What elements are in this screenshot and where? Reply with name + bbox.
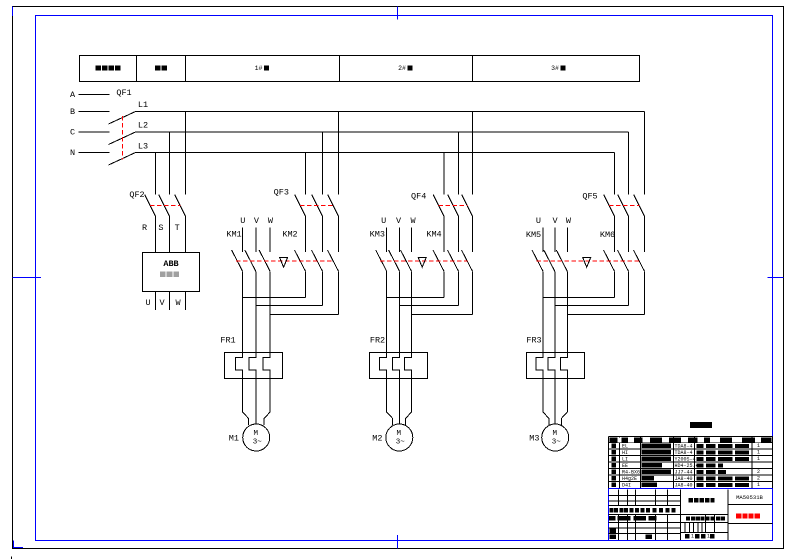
wire KM2 pole 1 top [305, 216, 307, 252]
breaker QF1 pole 1 blade [109, 112, 136, 125]
black tick below bottom-left corner [11, 557, 13, 559]
contactor KM5 pole 2 blade [544, 250, 555, 271]
blue corner mark bottom-left [14, 541, 24, 548]
svg-text:QF5: QF5 [582, 192, 597, 202]
breaker QF3 pole 2 blade [312, 195, 323, 217]
parts list row 3 seq blob [612, 470, 617, 475]
wire KM3 pole 3 to FR2 [411, 271, 413, 352]
breaker QF1 linkage red dashed line [122, 116, 124, 160]
wire KM1 pole 3 to FR1 [269, 271, 271, 352]
wire join KM2 pole 2 to KM1 [256, 305, 323, 307]
wire KM3 pole 2 top [399, 228, 401, 253]
svg-text:M3: M3 [529, 434, 539, 444]
contactor KM4 pole 3 blade [462, 250, 473, 271]
contactor KM5 pole 1 blade [532, 250, 543, 271]
wire KM4 pole 3 down [472, 271, 474, 314]
parts list row 6 seq blob [612, 450, 617, 455]
wire bus drop to QF4 pole 2 [458, 132, 460, 195]
breaker QF2 pole 3 blade [175, 195, 186, 217]
breaker QF2 pole 1 blade [145, 195, 156, 217]
wire FR3 phase 2 to motor [554, 379, 556, 425]
parts list column line 3 [673, 437, 675, 489]
breaker QF3 pole 1 blade [295, 195, 306, 217]
parts list table outline [609, 436, 773, 438]
wire KM5 pole 2 to FR3 [554, 271, 556, 352]
svg-text:1: 1 [757, 456, 760, 462]
svg-text:2: 2 [757, 476, 760, 482]
svg-text:LI: LI [622, 457, 628, 463]
thermal relay FR2 heater element 1 [380, 353, 387, 379]
contactor KM6 pole 3 blade [634, 250, 645, 271]
svg-text:H4g2E: H4g2E [622, 476, 637, 482]
title block main divider vertical [680, 490, 682, 541]
svg-text:KM6: KM6 [600, 230, 615, 240]
svg-text:U: U [536, 216, 541, 226]
wire QF2 pole 1 to converter input [155, 216, 157, 253]
wire KM5 pole 2 top [554, 228, 556, 253]
svg-text:MA50531B: MA50531B [736, 494, 763, 501]
wire bus drop to QF3 pole 2 [322, 132, 324, 195]
wire KM1 pole 2 to FR1 [255, 271, 257, 352]
wire KM6 pole 1 top [614, 216, 616, 252]
wire FR1 phase 1 to motor [243, 379, 249, 426]
wire join KM4 pole 3 to KM3 [412, 314, 473, 316]
title block drawing name blobs [689, 498, 693, 502]
wire converter output U [155, 292, 157, 311]
svg-text:V: V [396, 216, 402, 226]
title block center row line 3 [681, 532, 729, 534]
wire join KM6 pole 3 to KM5 [567, 314, 644, 316]
svg-text:W: W [268, 216, 274, 226]
title block row label blob approve [646, 535, 653, 539]
svg-text:C: C [70, 128, 75, 138]
thermal relay FR1 heater element 2 [249, 353, 256, 379]
wire KM3 pole 3 top [411, 228, 413, 253]
parts list row line 6 [609, 474, 773, 476]
parts list row 2 seq blob [612, 476, 617, 481]
blue centering tick bottom edge [397, 535, 399, 549]
wire KM5 pole 3 top [566, 228, 568, 253]
title block stamp row verticals [705, 515, 707, 533]
breaker QF4 pole 2 blade [448, 195, 459, 217]
wire FR1 phase 2 to motor [255, 379, 257, 425]
breaker QF5 pole 3 blade [634, 195, 645, 217]
thermal relay FR2 heater element 2 [393, 353, 400, 379]
svg-text:V: V [159, 298, 165, 308]
svg-text:EL: EL [622, 444, 628, 450]
svg-text:1: 1 [707, 534, 710, 540]
parts list row line 1 [609, 442, 773, 444]
parts list row 5 name bar [642, 457, 672, 462]
wire phase A input [79, 94, 110, 96]
contactor KM3 pole 3 blade [401, 250, 412, 271]
svg-text:Y200S-4: Y200S-4 [675, 457, 696, 463]
svg-text:KM4: KM4 [426, 230, 441, 240]
parts list row 1 spec bar [697, 483, 750, 487]
blue centering tick top edge [397, 7, 399, 20]
breaker QF5 linkage red dashed line [609, 205, 640, 207]
svg-text:QF2: QF2 [129, 190, 144, 200]
svg-text:FR3: FR3 [526, 335, 541, 345]
svg-text:U: U [240, 216, 245, 226]
wire bus drop to QF3 pole 1 [305, 153, 307, 195]
contactor KM5 pole 3 blade [556, 250, 567, 271]
wire KM2 pole 2 down [322, 271, 324, 305]
title block sheet count text [685, 534, 689, 538]
parts list row 2 name bar [642, 476, 655, 481]
title block scale label blobs [716, 516, 720, 520]
svg-text:HD4-25.4: HD4-25.4 [675, 463, 699, 469]
parts list column line 1 [619, 437, 621, 489]
wire KM4 pole 1 down [443, 271, 445, 297]
header table column line 3 [339, 56, 341, 82]
breaker QF4 pole 3 blade [462, 195, 473, 217]
wire KM6 pole 3 down [644, 271, 646, 314]
title block outer blue top line [609, 488, 773, 490]
svg-text:W: W [566, 216, 572, 226]
wire KM6 pole 3 top [644, 216, 646, 252]
mechanical interlock triangle branch 1 [280, 258, 288, 268]
wire KM6 pole 1 down [614, 271, 616, 297]
parts list row 5 seq blob [612, 457, 617, 462]
header table column line 2 [185, 56, 187, 82]
wire KM1 pole 1 top [242, 228, 244, 253]
svg-text:JA8-40: JA8-40 [675, 476, 693, 482]
parts list row 1 name bar [642, 483, 658, 488]
title block center cell bottom line [681, 514, 729, 516]
contactor KM2 pole 2 blade [312, 250, 323, 271]
contactor KM4 pole 2 blade [448, 250, 459, 271]
title block right cell line 1 [728, 504, 773, 506]
motor M1 circle [243, 424, 270, 451]
svg-text:L1: L1 [138, 100, 148, 110]
header cell label frequency converter [155, 65, 160, 70]
wire converter output W [185, 292, 187, 311]
svg-text:3~: 3~ [253, 438, 263, 446]
svg-text:B: B [70, 107, 75, 117]
thermal relay FR3 box [527, 353, 585, 379]
svg-text:U: U [381, 216, 386, 226]
svg-text:U: U [145, 298, 150, 308]
contactor linkage red dashed line branch 2 [380, 260, 467, 262]
frequency converter U1 box [143, 253, 200, 292]
contactor linkage red dashed line branch 1 [236, 260, 333, 262]
svg-text:N: N [70, 148, 75, 158]
wire QF2 pole 2 to converter input [169, 216, 171, 253]
wire bus drop to QF5 pole 1 [614, 153, 616, 195]
frequency converter U1 chinese name [160, 271, 166, 277]
parts list row line 2 [609, 448, 773, 450]
parts list row 5 spec bar [697, 457, 750, 461]
breaker QF5 pole 2 blade [618, 195, 629, 217]
contactor KM1 pole 3 blade [259, 250, 270, 271]
contactor linkage red dashed line branch 3 [537, 260, 640, 262]
contactor KM1 pole 2 blade [245, 250, 256, 271]
header table column line 1 [136, 56, 138, 82]
breaker QF4 pole 1 blade [433, 195, 444, 217]
thermal relay FR1 box [225, 353, 283, 379]
breaker QF1 pole 3 blade [109, 153, 136, 166]
svg-text:R4-BX6: R4-BX6 [622, 470, 640, 476]
svg-text:HI: HI [622, 450, 628, 456]
svg-text:FR2: FR2 [370, 335, 385, 345]
thermal relay FR3 heater element 3 [560, 353, 567, 379]
bus L3 wire [136, 152, 615, 154]
wire bus drop to QF2 pole 3 [185, 112, 187, 195]
blue tick top-left corner [12, 7, 14, 17]
breaker QF3 pole 3 blade [328, 195, 339, 217]
svg-text:KM3: KM3 [370, 230, 385, 240]
wire KM2 pole 2 top [322, 216, 324, 252]
wire join KM2 pole 3 to KM1 [270, 314, 338, 316]
wire KM3 pole 2 to FR2 [399, 271, 401, 352]
breaker QF5 pole 1 blade [604, 195, 615, 217]
contactor KM6 pole 2 blade [618, 250, 629, 271]
parts list row 7 name bar [642, 444, 672, 449]
wire KM2 pole 3 down [338, 271, 340, 314]
svg-text:FR1: FR1 [220, 335, 235, 345]
wire FR3 phase 3 to motor [561, 379, 567, 426]
thermal relay FR3 heater element 2 [548, 353, 555, 379]
wire join KM6 pole 2 to KM5 [555, 305, 629, 307]
svg-text:1: 1 [691, 534, 694, 540]
breaker QF2 linkage red dashed line [150, 205, 181, 207]
svg-text:KM1: KM1 [226, 230, 241, 240]
parts list row line 4 [609, 461, 773, 463]
parts list row 1 seq blob [612, 483, 617, 488]
parts list row 2 spec bar [697, 476, 750, 480]
svg-text:A: A [70, 90, 76, 100]
svg-text:TDA8-4: TDA8-4 [675, 450, 693, 456]
wire KM6 pole 2 top [628, 216, 630, 252]
parts list header black band [610, 438, 772, 442]
contactor KM3 pole 1 blade [376, 250, 387, 271]
wire KM3 pole 1 to FR2 [386, 271, 388, 352]
parts list row line 7 [609, 481, 773, 483]
parts list column line 4 [694, 437, 696, 489]
wire bus drop to QF3 pole 3 [338, 112, 340, 195]
svg-text:S: S [158, 223, 163, 233]
title block signature small cells [684, 523, 686, 533]
svg-text:3#: 3# [551, 65, 559, 72]
title block design row blobs [609, 516, 616, 520]
title block row label blob tracing [610, 529, 617, 533]
svg-text:TDA8-4: TDA8-4 [675, 444, 693, 450]
parts list row 6 spec bar [697, 450, 750, 454]
wire KM3 pole 1 top [386, 228, 388, 253]
svg-text:M: M [397, 430, 402, 438]
svg-text:JJ7-44: JJ7-44 [675, 470, 693, 476]
contactor KM2 pole 3 blade [328, 250, 339, 271]
wire bus drop to QF5 pole 3 [644, 112, 646, 195]
svg-text:1: 1 [757, 443, 760, 449]
title block company name red blobs [736, 513, 741, 518]
wire join KM4 pole 1 to KM3 [387, 297, 444, 299]
svg-text:EE: EE [622, 463, 628, 469]
svg-text:3~: 3~ [396, 438, 406, 446]
svg-text:KM5: KM5 [526, 230, 541, 240]
wire KM5 pole 3 to FR3 [566, 271, 568, 352]
wire KM4 pole 2 down [458, 271, 460, 305]
svg-text:1: 1 [757, 482, 760, 488]
wire phase N input [79, 152, 110, 154]
svg-text:W: W [410, 216, 416, 226]
breaker QF1 pole 2 blade [109, 132, 136, 145]
thermal relay FR2 heater element 3 [405, 353, 412, 379]
title block center row line 2 [681, 522, 729, 524]
svg-text:L3: L3 [138, 141, 148, 151]
parts list column line 2 [640, 437, 642, 489]
svg-text:R: R [142, 223, 147, 233]
wire FR2 phase 2 to motor [399, 379, 401, 425]
svg-text:M: M [253, 430, 258, 438]
wire join KM2 pole 1 to KM1 [243, 297, 306, 299]
contactor KM4 pole 1 blade [433, 250, 444, 271]
mechanical interlock triangle branch 2 [418, 258, 426, 268]
svg-text:2#: 2# [398, 65, 406, 72]
svg-text:1: 1 [757, 450, 760, 456]
parts list row 3 name bar [642, 470, 672, 475]
wire FR2 phase 3 to motor [406, 379, 412, 426]
wire KM1 pole 2 top [255, 228, 257, 253]
header table column line 4 [472, 56, 474, 82]
svg-text:M2: M2 [372, 434, 382, 444]
parts list row 7 seq blob [612, 444, 617, 449]
bus L2 wire [136, 131, 629, 133]
wire phase C input [79, 131, 110, 133]
title block row label blob process [610, 535, 617, 539]
motor M2 circle [386, 424, 413, 451]
motor M3 circle [542, 424, 569, 451]
wire FR3 phase 1 to motor [543, 379, 549, 426]
wire bus drop to QF4 pole 3 [472, 112, 474, 195]
title block revision row text blobs [610, 508, 614, 513]
parts list row 7 spec bar [697, 444, 750, 448]
svg-text:JA8-40: JA8-40 [675, 483, 693, 489]
wire join KM6 pole 1 to KM5 [543, 297, 615, 299]
parts list row 4 seq blob [612, 463, 617, 468]
wire FR2 phase 1 to motor [387, 379, 393, 426]
parts list row 4 spec bar [697, 463, 724, 467]
svg-text:M: M [552, 430, 557, 438]
svg-text:L2: L2 [138, 121, 148, 131]
section header table [80, 56, 640, 82]
svg-text:QF1: QF1 [116, 88, 131, 98]
title block left grid horizontals [609, 495, 681, 497]
parts list row 3 spec bar [697, 470, 727, 474]
thermal relay FR3 heater element 1 [536, 353, 543, 379]
svg-text:QF3: QF3 [274, 188, 289, 198]
wire KM1 pole 1 to FR1 [242, 271, 244, 352]
wire bus drop to QF2 pole 1 [155, 153, 157, 195]
bus L1 wire [136, 111, 645, 113]
svg-text:KM2: KM2 [282, 229, 297, 239]
wire phase B input [79, 111, 110, 113]
parts list row line 3 [609, 455, 773, 457]
title block outer blue left line [608, 489, 610, 541]
parts list row 4 name bar [642, 463, 663, 468]
contactor KM1 pole 1 blade [232, 250, 243, 271]
wire bus drop to QF5 pole 2 [628, 132, 630, 195]
breaker QF3 linkage red dashed line [300, 205, 334, 207]
breaker QF2 pole 2 blade [159, 195, 170, 217]
header cell label incoming supply [96, 65, 101, 70]
parts list header white gaps [618, 437, 622, 442]
contactor KM2 pole 1 blade [295, 250, 306, 271]
thermal relay FR2 box [370, 353, 428, 379]
wire join KM4 pole 2 to KM3 [400, 305, 459, 307]
svg-text:QF4: QF4 [411, 191, 426, 201]
parts list row line 5 [609, 468, 773, 470]
wire KM5 pole 1 top [542, 228, 544, 253]
wire KM2 pole 1 down [305, 271, 307, 297]
svg-text:V: V [552, 216, 558, 226]
wire converter output V [169, 292, 171, 311]
title block stage mark blobs [686, 516, 690, 520]
svg-text:ABB: ABB [163, 259, 178, 269]
svg-text:T: T [175, 223, 180, 233]
wire FR1 phase 3 to motor [264, 379, 270, 426]
svg-text:3~: 3~ [552, 438, 562, 446]
wire bus drop to QF2 pole 2 [169, 132, 171, 195]
wire bus drop to QF4 pole 1 [443, 153, 445, 195]
black bar above title block [690, 422, 712, 428]
parts list column line 5 [751, 437, 753, 489]
title block center-right divider vertical [727, 490, 729, 541]
wire KM6 pole 2 down [628, 271, 630, 305]
thermal relay FR1 heater element 1 [236, 353, 243, 379]
contactor KM6 pole 1 blade [604, 250, 615, 271]
blue centering tick right edge [768, 277, 784, 279]
title block weight label blobs [706, 516, 710, 520]
title block left grid verticals [618, 490, 620, 506]
parts list row 6 name bar [642, 450, 672, 455]
svg-text:2: 2 [757, 469, 760, 475]
svg-text:M1: M1 [229, 433, 239, 443]
svg-text:V: V [254, 216, 260, 226]
svg-text:W: W [175, 298, 181, 308]
wire KM4 pole 1 top [443, 216, 445, 252]
contactor KM3 pole 2 blade [389, 250, 400, 271]
svg-text:D4I: D4I [622, 483, 631, 489]
wire QF2 pole 3 to converter input [185, 216, 187, 253]
title block right cell line 2 [728, 523, 773, 525]
wire KM2 pole 3 top [338, 216, 340, 252]
wire KM5 pole 1 to FR3 [542, 271, 544, 352]
wire KM1 pole 3 top [269, 228, 271, 253]
svg-text:1#: 1# [255, 65, 263, 72]
blue centering tick left edge [13, 277, 42, 279]
mechanical interlock triangle branch 3 [583, 258, 591, 268]
thermal relay FR1 heater element 3 [263, 353, 270, 379]
wire KM4 pole 2 top [458, 216, 460, 252]
wire KM4 pole 3 top [472, 216, 474, 252]
breaker QF4 linkage red dashed line [439, 205, 468, 207]
